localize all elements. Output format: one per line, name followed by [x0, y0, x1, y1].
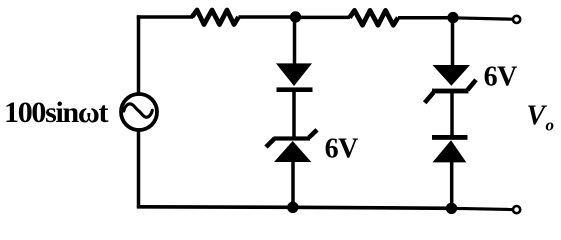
terminal top output	[513, 16, 520, 23]
wire D2 to bottom node	[450, 161, 454, 209]
wire left vertical (source to top wire)	[137, 15, 141, 92]
wire right branch top	[451, 18, 455, 66]
svg-text:o: o	[546, 116, 555, 135]
resistor R1	[192, 10, 239, 25]
diode D1	[276, 63, 313, 92]
wire top left segment	[137, 15, 193, 19]
node bottom middle junction	[287, 202, 298, 213]
wire D1 to Z1	[292, 91, 296, 138]
diode D2	[432, 135, 468, 162]
wire R2 to node	[398, 16, 453, 20]
node bottom right junction	[446, 203, 457, 214]
svg-text:6V: 6V	[484, 62, 517, 93]
wire node to R2	[296, 16, 351, 20]
wire bottom node to bottom output terminal	[452, 208, 513, 209]
wire node to top output terminal	[453, 18, 512, 19]
resistor R2	[350, 10, 399, 25]
zener diode Z1	[266, 130, 317, 162]
AC source	[121, 94, 157, 130]
wire Z2 to D2	[450, 92, 454, 136]
wire left vertical (source to bottom wire)	[137, 132, 141, 209]
svg-text:100sinωt: 100sinωt	[4, 96, 109, 129]
wire middle branch top	[293, 17, 297, 65]
wire Z1 to bottom node	[291, 161, 295, 208]
zener diode Z2	[425, 65, 476, 103]
wire bottom middle segment	[293, 207, 452, 208]
node top right junction	[447, 12, 458, 23]
wire bottom left segment	[137, 205, 293, 209]
terminal bottom output	[513, 206, 520, 213]
wire R1 to node	[239, 15, 297, 19]
svg-text:V: V	[527, 101, 548, 132]
svg-text:6V: 6V	[325, 133, 359, 164]
node top middle junction	[290, 11, 301, 22]
